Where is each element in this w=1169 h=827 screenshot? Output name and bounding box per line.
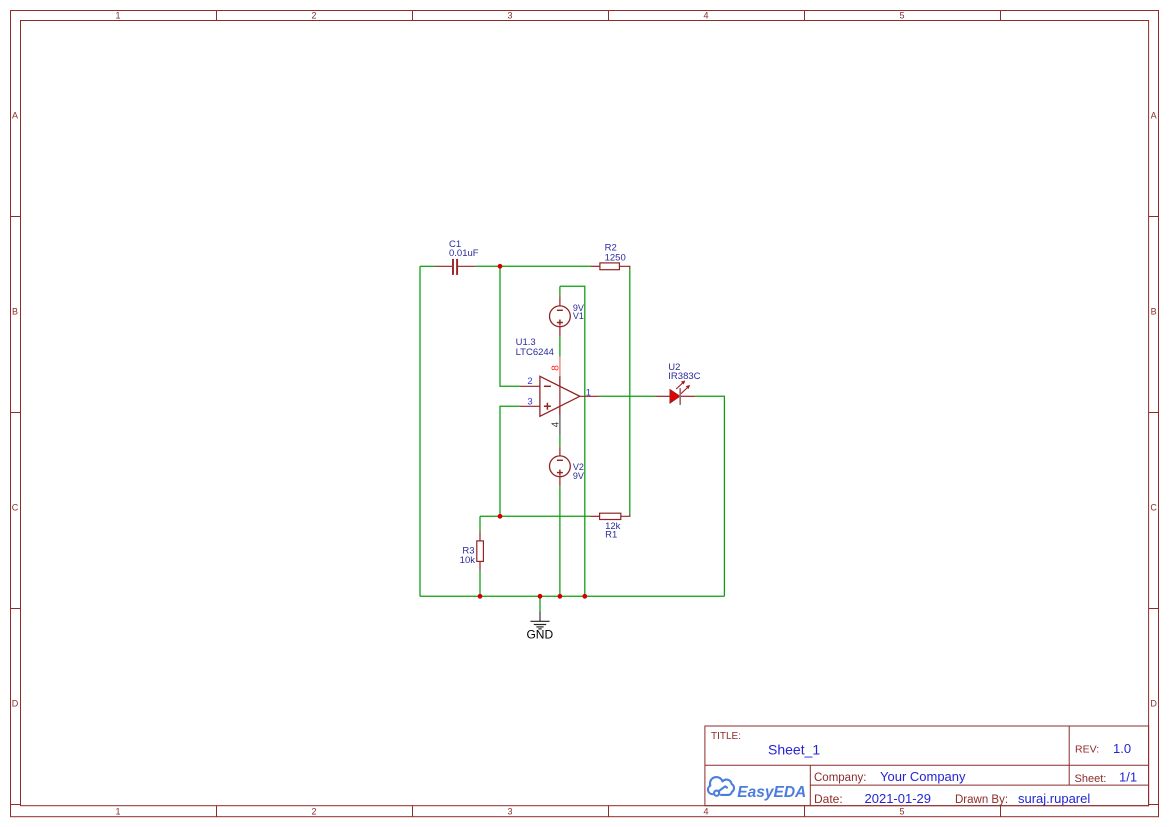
op-amp pin 2 lead [520, 385, 540, 387]
svg-text:B: B [1151, 306, 1157, 316]
svg-text:B: B [12, 306, 18, 316]
wire GND stub [539, 596, 541, 611]
op-amp plus sign [544, 403, 551, 410]
svg-text:A: A [1151, 110, 1157, 120]
LED arrow 1 [676, 381, 685, 389]
capacitor C1 plates [453, 259, 457, 275]
capacitor C1 right lead [458, 265, 476, 267]
wire V2 bottom to bus [559, 486, 561, 596]
wire left loop vertical [419, 266, 421, 596]
svg-text:8: 8 [550, 365, 561, 371]
top border ticks [217, 11, 1001, 21]
svg-text:3: 3 [507, 807, 512, 817]
svg-text:0.01uF: 0.01uF [449, 248, 479, 259]
op-amp minus sign [544, 385, 551, 387]
resistor R2 right lead [619, 266, 629, 268]
junction bus R3 [478, 594, 483, 599]
V1 top lead [559, 296, 561, 306]
op-amp pin 4 lead (gray) [559, 415, 561, 436]
svg-text:Date:: Date: [814, 792, 843, 806]
resistor R1 right lead [621, 514, 630, 516]
junction dots [478, 264, 588, 599]
right border ticks [1149, 217, 1159, 805]
op-amp labels [516, 337, 554, 358]
title block outline [705, 726, 1149, 806]
V1 labels [573, 303, 584, 321]
svg-text:1: 1 [586, 388, 591, 399]
wire opamp output to LED [599, 395, 655, 397]
svg-text:2: 2 [527, 376, 532, 387]
junction bus V2 [558, 594, 563, 599]
svg-text:2: 2 [311, 807, 316, 817]
svg-text:D: D [12, 698, 19, 708]
op-amp internal line through [559, 377, 561, 415]
svg-text:2: 2 [311, 10, 316, 20]
svg-text:3: 3 [527, 396, 532, 407]
svg-text:D: D [1150, 698, 1157, 708]
LED labels [668, 362, 700, 382]
svg-text:1/1: 1/1 [1119, 770, 1137, 785]
svg-text:2021-01-29: 2021-01-29 [865, 791, 932, 806]
resistor R1 body [600, 513, 621, 519]
svg-text:C: C [12, 502, 19, 512]
svg-text:5: 5 [899, 10, 904, 20]
svg-text:LTC6244: LTC6244 [516, 347, 554, 358]
svg-text:A: A [12, 110, 18, 120]
voltage source V2 [550, 456, 571, 477]
resistor R2 body [600, 263, 620, 270]
resistor R2 labels [605, 243, 626, 264]
wire pin3 down to feedback node [500, 406, 520, 516]
svg-text:1: 1 [115, 10, 120, 20]
svg-text:suraj.ruparel: suraj.ruparel [1018, 791, 1090, 806]
resistor R3 body [477, 541, 484, 562]
wire R2-R1 right vertical [629, 268, 631, 515]
V2 bottom lead [559, 477, 561, 487]
op-amp U1 triangle [540, 376, 580, 416]
wire V1 top stub [559, 286, 561, 296]
wire R3 top segment [479, 516, 481, 531]
wire V1 top return [560, 286, 585, 596]
svg-text:4: 4 [703, 807, 708, 817]
LED arrow 2 [681, 385, 690, 393]
LED left lead [655, 395, 670, 397]
junction bus GND [538, 594, 543, 599]
svg-text:TITLE:: TITLE: [711, 731, 741, 742]
junction node feedback (pin3/R1/R3) [498, 514, 503, 519]
resistor R1 labels [605, 521, 621, 540]
svg-text:V1: V1 [573, 311, 584, 321]
resistor R3 top lead [479, 531, 481, 541]
wire pin4 to V2 [559, 436, 561, 447]
title block row line 1 [705, 764, 1149, 766]
capacitor C1 left lead [435, 265, 452, 267]
title block rev column divider [1068, 726, 1070, 785]
wire V1 bottom stub [559, 336, 561, 356]
svg-text:R1: R1 [605, 530, 617, 541]
wire feedback row horizontal [480, 515, 590, 517]
capacitor C1 labels [449, 239, 479, 259]
svg-text:10k: 10k [460, 555, 476, 566]
svg-text:4: 4 [703, 10, 708, 20]
svg-text:Sheet:: Sheet: [1075, 773, 1107, 785]
title block logo cell divider [809, 765, 811, 806]
svg-text:REV:: REV: [1075, 744, 1099, 756]
svg-text:Your Company: Your Company [880, 769, 966, 784]
ground symbol [530, 612, 549, 629]
junction bus V1 return [582, 594, 587, 599]
title block row line 2 [810, 784, 1148, 786]
wire top left horizontal [420, 265, 435, 267]
svg-text:5: 5 [899, 807, 904, 817]
resistor R1 left lead [590, 515, 600, 517]
resistor R2 left lead [591, 265, 600, 267]
svg-text:Company:: Company: [814, 772, 866, 784]
svg-text:1250: 1250 [605, 252, 626, 263]
voltage source V1 [550, 306, 571, 327]
op-amp internal vertical [559, 376, 561, 415]
junction node top (C1/R2/pin2) [498, 264, 503, 269]
svg-text:Sheet_1: Sheet_1 [768, 742, 820, 758]
left border ticks [11, 217, 21, 805]
LED U2 triangle [670, 390, 680, 403]
V2 top lead [559, 447, 561, 456]
svg-text:1.0: 1.0 [1113, 741, 1131, 756]
svg-text:4: 4 [550, 421, 561, 427]
op-amp output lead [580, 395, 599, 397]
op-amp pin 3 lead [520, 405, 540, 407]
bottom border ticks [217, 806, 1001, 817]
wire LED to right loop [695, 396, 724, 596]
svg-text:3: 3 [507, 10, 512, 20]
svg-text:EasyEDA: EasyEDA [737, 784, 806, 801]
wire bottom bus [420, 595, 724, 597]
LED right lead [680, 395, 695, 397]
svg-text:9V: 9V [573, 471, 584, 481]
resistor R3 labels [460, 545, 476, 566]
wire junction to pin2 [500, 266, 520, 386]
V1 bottom lead [559, 327, 561, 337]
svg-text:IR383C: IR383C [668, 371, 700, 382]
svg-text:Drawn By:: Drawn By: [955, 794, 1008, 806]
resistor R3 bottom lead [479, 561, 481, 571]
svg-text:GND: GND [526, 628, 553, 642]
V2 labels [573, 462, 584, 481]
svg-text:1: 1 [115, 807, 120, 817]
wire top middle horizontal [476, 265, 591, 267]
wire R3 bottom segment [479, 571, 481, 596]
svg-text:C: C [1150, 502, 1157, 512]
EasyEDA logo cloud [708, 777, 734, 796]
LED U2 cathode bar [679, 388, 681, 405]
op-amp pin 8 lead (power, salmon) [559, 357, 561, 376]
